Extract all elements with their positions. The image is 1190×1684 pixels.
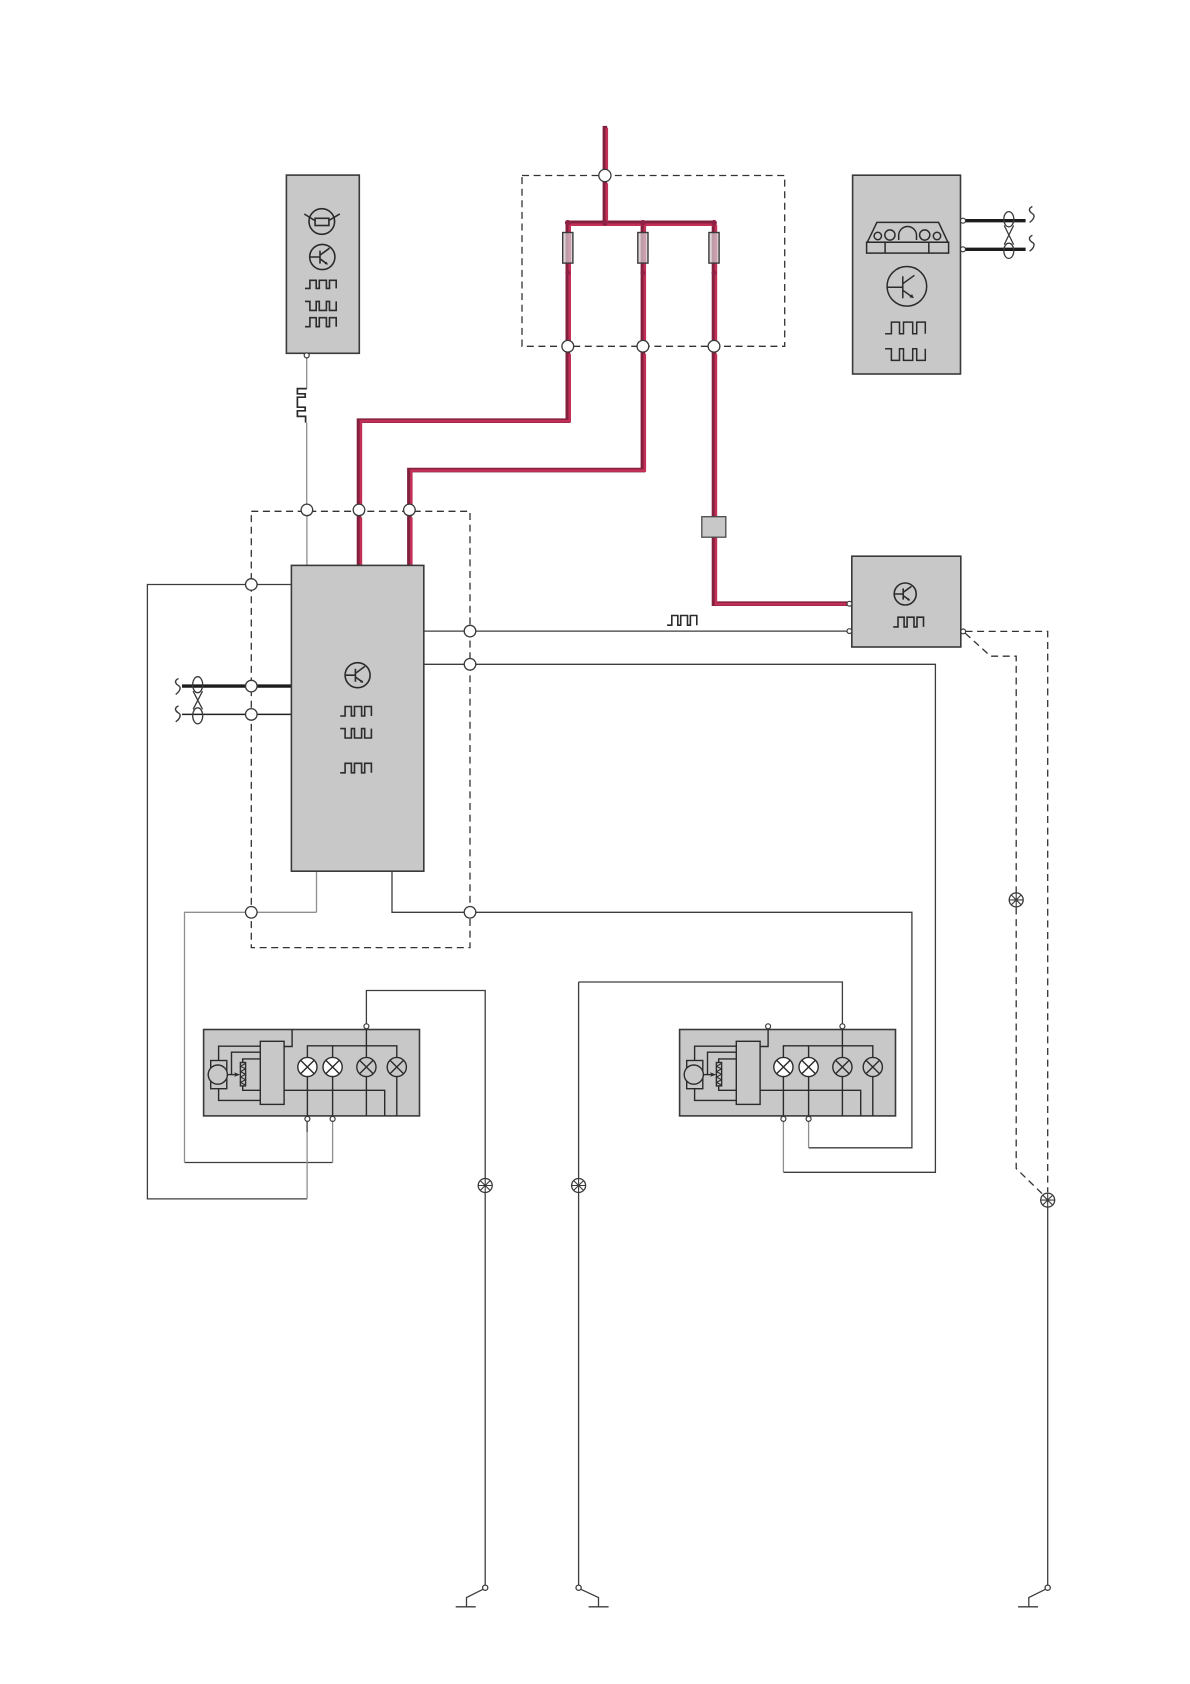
ground G1 [456, 1585, 488, 1607]
wire right lamp return bracket [579, 982, 843, 1178]
dots below fuses [565, 270, 570, 275]
wire highlight CEM red pin 2 [410, 518, 413, 567]
wire CEM bottom right to right lamp [392, 871, 912, 1148]
icon square wave M2 a [340, 707, 371, 717]
junction circle fuse box out 3 [708, 340, 720, 352]
twisted pair from instrument cluster [966, 207, 1035, 259]
junction circle CEM top red 1 [353, 504, 365, 516]
wire twilight sensor module down-lead [306, 358, 308, 566]
pin circle L2 top step [766, 1024, 771, 1029]
icon square wave M2 c [340, 763, 371, 773]
CEM dashed boundary [251, 511, 470, 947]
wire left lamp pin stub 2 [332, 1121, 334, 1162]
wire cluster pair upper [966, 219, 1026, 222]
break symbol cluster wire 2 [1029, 235, 1034, 251]
junction circle CEM bottom left [246, 907, 258, 919]
pin circle M4 lower [961, 247, 966, 252]
break symbol cluster wire 1 [1029, 207, 1034, 223]
twist symbol cluster pair [1004, 212, 1014, 259]
wire highlight CEM red pin 1 [360, 518, 363, 567]
wire right splice to ground G2 [578, 1193, 580, 1586]
wire CEM left pin to left front lamp [147, 585, 307, 1199]
module M4 instrument cluster [853, 175, 961, 374]
splice S3 shield [1041, 1193, 1055, 1207]
wire CEM right pin to rear module [424, 630, 848, 632]
junction circle fuse box out 2 [637, 340, 649, 352]
junction circle CEM left [246, 579, 258, 591]
fuse F2 [638, 233, 648, 264]
pin circle L1 top [364, 1024, 369, 1029]
wire right lamp pin stub 2 [808, 1121, 810, 1147]
icon square wave M1 a [305, 280, 336, 288]
icon photoresistor M1 [304, 209, 340, 235]
icon square wave M1 b [305, 301, 336, 310]
icon square wave M3 [893, 617, 923, 627]
icon transistor M1 [310, 244, 335, 269]
icon transistor M4 [887, 267, 927, 307]
splice S4 shield [1009, 893, 1023, 907]
inline connector on F3 wire [702, 517, 726, 538]
wire highlight F1 to CEM [361, 354, 570, 506]
wire CEM bottom left gray [185, 871, 317, 1162]
module M2 CEM [291, 565, 423, 871]
wire highlight F3 to rear module [716, 354, 848, 604]
icon transistor M3 [894, 583, 916, 605]
shield dashed wire upper [966, 631, 1048, 1192]
shield dashed wire lower [965, 633, 1044, 1195]
junction circle CEM top gray [301, 504, 313, 516]
pin circle M1 bottom [304, 353, 309, 358]
fuse holder dashed boundary [522, 176, 785, 347]
twist symbol CEM pair [193, 677, 203, 724]
wire battery feed top [603, 126, 608, 170]
wire CEM red pin 2 [407, 516, 412, 566]
square wave symbol on CEM-rear wire [667, 616, 697, 626]
wire left lamp bus horizontal [185, 1162, 333, 1164]
pin circle M3 out [961, 629, 966, 634]
comb symbol on sensor lead [297, 389, 306, 423]
ground G2 [576, 1585, 609, 1607]
fuse F1 [563, 233, 573, 264]
icon transistor M2 [345, 663, 370, 688]
icon square wave M4 a [885, 322, 925, 334]
splice S2 [572, 1179, 586, 1193]
wire right lamp pin stub 1 [782, 1121, 784, 1172]
lamp assembly L1 left front lamp [204, 1028, 420, 1121]
break symbol CEM pair wire 1 [176, 679, 181, 695]
icon square wave M2 b [340, 729, 371, 738]
pin circle M3 red [847, 601, 852, 606]
junction circle CEM right 2 [464, 659, 476, 671]
wire CEM red pin 1 [357, 516, 362, 566]
wire fuse F2 drop [641, 223, 646, 341]
splice S1 [478, 1179, 492, 1193]
fuse F3 [709, 233, 719, 264]
junction circle CEM pair 1 [246, 680, 258, 692]
supply wire 30-feed (red) [359, 126, 848, 604]
wire left lamp pin stub 1 [306, 1132, 308, 1199]
module M3 rear electronic module [852, 556, 961, 647]
wire highlight fuse F2 drop [644, 225, 647, 343]
lamp assembly L2 right front lamp [680, 1028, 896, 1121]
icon square wave M4 b [885, 349, 925, 361]
icon square wave M1 c [305, 318, 336, 327]
wire cluster pair lower [966, 248, 1026, 251]
wire highlight battery feed top [606, 128, 609, 172]
wire dark stubs at lamp pins [306, 1121, 308, 1132]
wire fuse F3 drop [712, 223, 717, 341]
junction circle CEM bottom right [464, 907, 476, 919]
wire CEM right pin 2 to right front lamp feed [424, 664, 936, 1172]
junction circle feed top [599, 169, 611, 181]
wire highlight fuse F1 drop [568, 225, 571, 343]
wire feed into fuse bus [603, 181, 608, 222]
junction circle CEM right 1 [464, 625, 476, 637]
wire highlight feed into fuse bus [606, 183, 609, 224]
junction circle CEM top red 2 [404, 504, 416, 516]
wire F2 to CEM [409, 352, 643, 504]
wire highlight fuse F3 drop [715, 225, 718, 343]
wire fuse F1 drop [565, 223, 570, 341]
junction circle CEM pair 2 [246, 709, 258, 721]
wire F1 to CEM [359, 352, 568, 504]
pin circle M3 in [847, 629, 852, 634]
break symbol CEM pair wire 2 [176, 706, 181, 722]
module M1 twilight sensor [286, 175, 359, 353]
pin circle M4 upper [961, 218, 966, 223]
icon dashboard M4 [867, 222, 949, 253]
wire shield splice to ground G3 [1047, 1207, 1049, 1585]
wire fuse bus [568, 221, 714, 226]
wire CEM twisted pair thick [182, 684, 291, 687]
pin circle L2 top lamp [840, 1024, 845, 1029]
wire left splice to ground G1 [484, 1193, 486, 1586]
wire highlight fuse bus [569, 223, 715, 226]
ground G3 [1018, 1585, 1050, 1607]
wire left lamp return to splice and ground [366, 991, 485, 1179]
wire F3 to rear module [714, 352, 847, 604]
wire CEM twisted pair thin [182, 713, 291, 715]
junction circle fuse box out 1 [562, 340, 574, 352]
junction dots on red bus [565, 220, 717, 275]
twisted pair into CEM [176, 677, 292, 724]
wire highlight F2 to CEM [411, 354, 645, 506]
